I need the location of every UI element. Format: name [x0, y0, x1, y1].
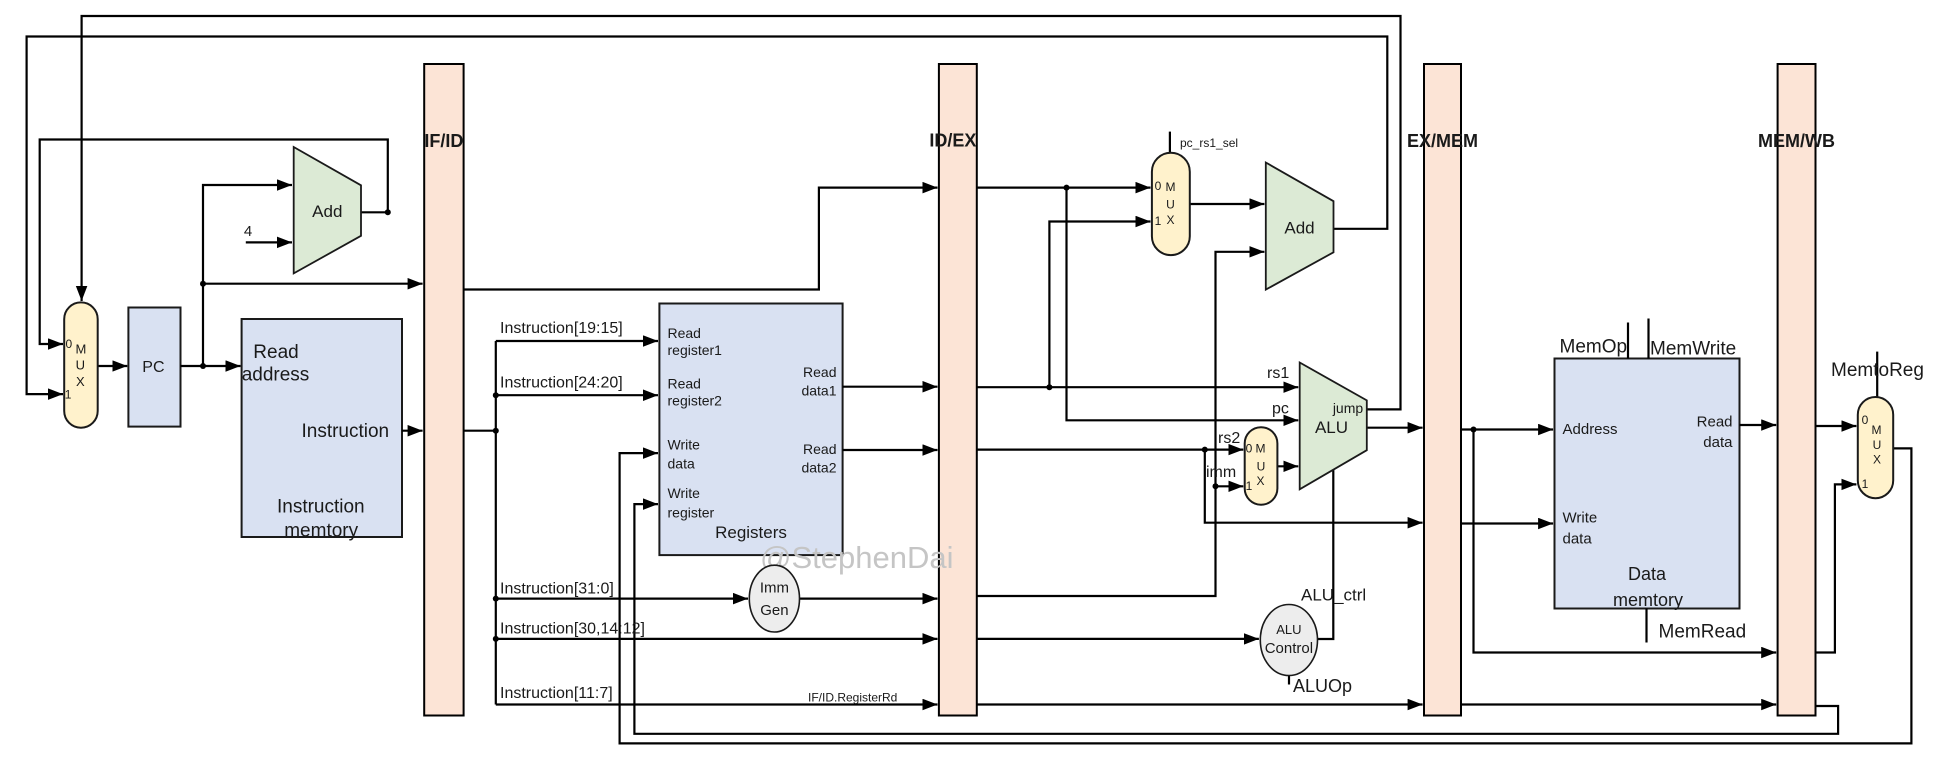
junction dot add1 output	[385, 209, 391, 215]
svg-text:X: X	[1166, 213, 1174, 227]
wire ALU result bypass down to MEM/WB	[1474, 430, 1777, 653]
wire jump return: ALU jump output to top-left MUX top	[82, 16, 1401, 409]
junction dot rs1 split	[1046, 384, 1052, 390]
svg-text:data: data	[1703, 434, 1733, 451]
junction dot instruction main	[493, 428, 499, 434]
junction dot PC output	[200, 363, 206, 369]
wire pc to IF/ID	[203, 283, 423, 285]
svg-text:1: 1	[65, 388, 72, 402]
wire ALU result EX/MEM to Data memory Address	[1461, 428, 1553, 430]
pipeline register MEM/WB	[1778, 64, 1816, 716]
svg-text:Data: Data	[1628, 564, 1667, 584]
wire rs1 from ID/EX to ALU	[977, 386, 1299, 388]
junction dot instruction at 31:0	[493, 596, 499, 602]
junction dot pc split	[1064, 185, 1070, 191]
wire Read data to MEM/WB	[1740, 424, 1777, 426]
svg-text:M: M	[75, 342, 86, 357]
tick pc_rs1_sel select	[1169, 132, 1171, 153]
pipeline register EX/MEM	[1424, 64, 1461, 716]
wire Instruction[19:15] to Read register1	[496, 340, 658, 342]
svg-text:4: 4	[244, 223, 252, 240]
ALU	[1300, 363, 1367, 490]
wire read data MEM/WB to MemtoReg MUX input 0	[1816, 425, 1857, 427]
svg-text:U: U	[1166, 198, 1175, 212]
mux pc_rs1_sel	[1152, 153, 1190, 255]
junction dot pc to IF/ID branch	[200, 281, 206, 287]
wire Read data1 to ID/EX	[843, 386, 938, 388]
svg-text:M: M	[1166, 180, 1176, 194]
svg-text:IF/ID.RegisterRd: IF/ID.RegisterRd	[808, 691, 897, 705]
svg-text:memtory: memtory	[284, 520, 358, 541]
wire Imm Gen to ID/EX	[800, 597, 938, 599]
svg-text:M: M	[1256, 442, 1266, 456]
svg-text:ALUOp: ALUOp	[1293, 676, 1352, 696]
svg-text:Instruction[31:0]: Instruction[31:0]	[500, 581, 614, 598]
tick MemRead	[1645, 609, 1647, 643]
svg-text:EX/MEM: EX/MEM	[1407, 131, 1478, 151]
svg-text:Gen: Gen	[760, 602, 788, 619]
wire pc down to ALU pc input	[1067, 188, 1299, 421]
wire Instruction[30,14:12] to ID/EX	[496, 638, 938, 640]
svg-text:register: register	[668, 504, 715, 520]
svg-text:ALU: ALU	[1315, 418, 1348, 437]
svg-text:pc: pc	[1272, 401, 1289, 418]
svg-text:Read: Read	[1697, 414, 1733, 431]
svg-text:ID/EX: ID/EX	[929, 131, 976, 151]
svg-text:memtory: memtory	[1613, 590, 1683, 610]
wire MUX to PC	[98, 365, 128, 367]
wire pc from IF/ID to ID/EX	[464, 188, 938, 290]
tick MemtoReg select	[1876, 352, 1878, 397]
svg-text:Write: Write	[668, 485, 701, 501]
svg-text:X: X	[1873, 453, 1881, 467]
mux ALU operand B	[1245, 427, 1278, 505]
svg-text:MemRead: MemRead	[1659, 622, 1747, 643]
svg-text:Read: Read	[253, 342, 298, 363]
svg-text:Write: Write	[668, 437, 701, 453]
svg-text:rs2: rs2	[1218, 430, 1240, 447]
wire imm to ALUsrc MUX input 1	[1216, 485, 1244, 487]
wire rs2 down to EX/MEM write data	[1205, 450, 1423, 523]
svg-text:U: U	[1873, 438, 1882, 452]
wire write data EX/MEM to Data memory	[1461, 522, 1553, 524]
svg-text:X: X	[1256, 474, 1264, 488]
wire RegisterRd ID/EX to EX/MEM	[977, 703, 1423, 705]
wire branch target return: EX Add output to MUX input 1	[27, 37, 1388, 395]
wire instruction distribution vertical	[495, 341, 497, 705]
svg-text:PC: PC	[142, 359, 164, 376]
svg-text:address: address	[242, 364, 310, 385]
svg-text:Instruction: Instruction	[301, 421, 389, 442]
svg-text:MemWrite: MemWrite	[1650, 339, 1736, 360]
junction dot instruction at 24:20	[493, 392, 499, 398]
svg-text:Imm: Imm	[760, 580, 789, 597]
svg-text:ALU: ALU	[1276, 622, 1301, 637]
register PC	[128, 308, 180, 427]
wire RegisterRd writeback to Registers Write register	[634, 504, 1838, 734]
wire constant 4 into Add	[246, 241, 292, 243]
wire Read data2 to ID/EX	[843, 449, 938, 451]
wire ALUsrc MUX out to ALU	[1277, 465, 1298, 467]
svg-text:Read: Read	[803, 441, 836, 457]
svg-text:IF/ID: IF/ID	[424, 131, 463, 151]
svg-text:register1: register1	[668, 342, 723, 358]
wire Instruction[24:20] to Read register2	[496, 394, 658, 396]
svg-text:U: U	[76, 357, 85, 372]
svg-text:0: 0	[1246, 442, 1253, 456]
wire ALU result MEM/WB to MemtoReg MUX input 1	[1816, 484, 1857, 652]
svg-text:data: data	[1563, 531, 1593, 548]
adder Add EX stage	[1266, 163, 1334, 290]
svg-text:Instruction[11:7]: Instruction[11:7]	[500, 685, 613, 702]
svg-text:Control: Control	[1265, 640, 1313, 657]
svg-text:rs1: rs1	[1267, 365, 1289, 382]
wire PC+4 loop: Add output to MUX input 0	[361, 211, 388, 213]
svg-text:Instruction[24:20]: Instruction[24:20]	[500, 374, 623, 391]
junction dot imm split	[1213, 483, 1219, 489]
data memory box	[1555, 359, 1740, 609]
wire Instruction[31:0] to Imm Gen	[496, 597, 748, 599]
svg-text:imm: imm	[1206, 464, 1236, 481]
wire Instruction[11:7] IF/ID.RegisterRd to ID/EX	[496, 703, 938, 705]
wire ALU result to EX/MEM	[1367, 427, 1423, 429]
svg-text:Instruction[19:15]: Instruction[19:15]	[500, 320, 623, 337]
wire rs2 from ID/EX to ALUsrc MUX input 0	[977, 449, 1244, 451]
wire pc_rs1_sel MUX out to EX Add	[1190, 203, 1265, 205]
svg-text:pc_rs1_sel: pc_rs1_sel	[1180, 136, 1238, 150]
svg-text:1: 1	[1246, 479, 1253, 493]
svg-text:Add: Add	[312, 202, 342, 221]
svg-text:Address: Address	[1563, 421, 1618, 438]
wire instruction memory to IF/ID	[402, 430, 423, 432]
svg-text:data1: data1	[801, 382, 836, 398]
svg-text:Write: Write	[1563, 510, 1598, 527]
svg-text:Read: Read	[668, 325, 701, 341]
wire imm from ID/EX up to EX Add bottom input	[977, 252, 1265, 596]
svg-text:0: 0	[1155, 179, 1162, 193]
svg-text:MemOp: MemOp	[1560, 337, 1628, 358]
svg-text:@StephenDai: @StephenDai	[760, 540, 953, 575]
wire rs1 up to pc_rs1_sel MUX input 1	[1049, 222, 1150, 388]
junction dot instruction at 30,14:12	[493, 636, 499, 642]
svg-text:Read: Read	[803, 364, 836, 380]
svg-text:data: data	[668, 456, 695, 472]
svg-text:1: 1	[1862, 477, 1869, 491]
svg-text:0: 0	[1862, 413, 1869, 427]
svg-text:data2: data2	[801, 459, 836, 475]
mux MemtoReg	[1858, 397, 1893, 498]
pipeline register ID/EX	[939, 64, 977, 716]
wire funct to ALU Control	[977, 638, 1259, 640]
junction dot ALU result split	[1471, 427, 1477, 433]
svg-text:Read: Read	[668, 376, 701, 392]
svg-text:Add: Add	[1284, 219, 1314, 238]
svg-text:MEM/WB: MEM/WB	[1758, 131, 1835, 151]
registers box	[659, 304, 842, 556]
wire ALU_ctrl from ALU Control to ALU	[1318, 470, 1334, 639]
svg-text:Instruction: Instruction	[277, 496, 365, 517]
instruction memory box	[242, 319, 402, 537]
svg-text:ALU_ctrl: ALU_ctrl	[1301, 586, 1366, 605]
svg-text:MemtoReg: MemtoReg	[1831, 360, 1924, 381]
wire PC value up to Add top input	[203, 185, 292, 366]
wire RegisterRd EX/MEM to MEM/WB	[1461, 703, 1776, 705]
tick MemWrite	[1647, 319, 1649, 359]
svg-text:Instruction[30,14:12]: Instruction[30,14:12]	[500, 621, 645, 638]
wire PC to instruction memory	[181, 365, 241, 367]
svg-text:U: U	[1257, 460, 1266, 474]
tick ALUOp	[1288, 676, 1290, 685]
svg-text:jump: jump	[1332, 400, 1364, 416]
svg-text:X: X	[76, 374, 85, 389]
svg-text:1: 1	[1155, 214, 1162, 228]
junction dot rs2 split	[1202, 447, 1208, 453]
mux pc source (top-left)	[64, 302, 98, 427]
svg-text:M: M	[1872, 423, 1882, 437]
wire IF/ID instruction out to distribution node	[464, 430, 496, 432]
adder Add IF stage	[294, 147, 361, 273]
svg-text:0: 0	[66, 337, 73, 351]
svg-text:Registers: Registers	[715, 523, 787, 542]
ellipse Imm Gen	[749, 565, 799, 632]
wire MemtoReg MUX output to Registers Write data	[620, 448, 1912, 743]
ellipse ALU Control	[1260, 605, 1317, 676]
tick MemOp	[1627, 323, 1629, 359]
svg-text:register2: register2	[668, 393, 723, 409]
pipeline register IF/ID	[424, 64, 463, 716]
wire pc from ID/EX to pc_rs1_sel MUX input 0	[977, 187, 1151, 189]
